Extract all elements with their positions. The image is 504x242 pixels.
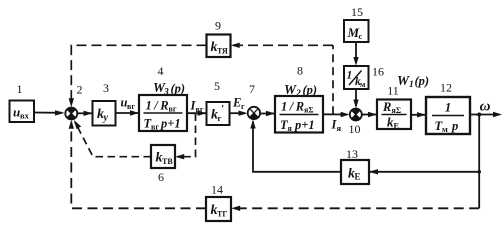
svg-text:1: 1 bbox=[445, 100, 452, 115]
svg-text:2: 2 bbox=[295, 89, 301, 99]
block 9 k_T current feedback bbox=[207, 35, 231, 58]
svg-text:1 / R: 1 / R bbox=[281, 100, 304, 114]
wire: node 10 to block 11 bbox=[362, 114, 377, 116]
wire: dashed from block 9 left, down into node 2 top bbox=[71, 45, 206, 105]
wire: dashed tachogenerator line from trunk to k_TG bbox=[233, 207, 479, 209]
svg-text:16: 16 bbox=[372, 65, 384, 79]
summing junction 7 bbox=[248, 107, 260, 119]
wire: speed emf feedback to k_E bbox=[369, 171, 479, 173]
wire: k_E output left then up into node 7 bbox=[253, 122, 341, 172]
svg-text:(р): (р) bbox=[303, 83, 318, 97]
svg-text:(р): (р) bbox=[171, 82, 186, 96]
svg-text:вх: вх bbox=[20, 111, 30, 121]
svg-text:2: 2 bbox=[77, 83, 83, 97]
block 6 k_TV field current feedback bbox=[151, 145, 175, 168]
svg-text:яΣ: яΣ bbox=[304, 106, 314, 115]
svg-text:7: 7 bbox=[249, 82, 255, 96]
wire: node 7 to W2 bbox=[260, 113, 275, 115]
svg-text:Е: Е bbox=[355, 172, 361, 182]
svg-text:Е: Е bbox=[232, 96, 241, 110]
svg-text:я: я bbox=[337, 123, 342, 133]
wire: W3 to k_g with label I_vg bbox=[187, 112, 207, 114]
block 1 u_vx bbox=[10, 101, 35, 123]
svg-text:у: у bbox=[103, 113, 109, 124]
svg-text:с: с bbox=[359, 31, 363, 41]
svg-text:р+1: р+1 bbox=[160, 117, 181, 131]
svg-text:10: 10 bbox=[349, 122, 361, 136]
wire: dashed line to k_T block 9 bbox=[233, 44, 334, 46]
svg-text:г: г bbox=[241, 102, 245, 111]
svg-text:ТВ: ТВ bbox=[162, 157, 173, 166]
svg-text:м: м bbox=[360, 80, 366, 89]
wire: dashed from k_TV left then diagonal up into node 2 bbox=[75, 122, 151, 157]
block 16 1/k_m bbox=[344, 66, 369, 89]
block 4 W3(p) generator field bbox=[139, 95, 187, 132]
svg-text:вг: вг bbox=[169, 105, 177, 114]
svg-text:вг: вг bbox=[151, 123, 159, 132]
svg-text:м: м bbox=[442, 124, 448, 134]
wire: output with node and arrow, label omega bbox=[470, 114, 499, 116]
wire: 1/k_m down to node 10 bbox=[355, 89, 357, 106]
svg-text:8: 8 bbox=[297, 64, 303, 78]
svg-text:ТГ: ТГ bbox=[217, 210, 227, 219]
svg-text:13: 13 bbox=[346, 147, 358, 161]
svg-text:3: 3 bbox=[103, 81, 109, 95]
block 3 k_u amplifier bbox=[93, 101, 116, 126]
junction dot on trunk bbox=[477, 170, 481, 174]
svg-text:6: 6 bbox=[158, 170, 164, 184]
block 13 k_E bbox=[341, 160, 369, 184]
svg-text:R: R bbox=[382, 100, 391, 114]
summing junction 2 bbox=[65, 107, 77, 119]
svg-text:р: р bbox=[451, 119, 458, 133]
wire: block 11 to block 12 bbox=[411, 114, 426, 116]
svg-text:я: я bbox=[288, 124, 293, 133]
svg-text:р+1: р+1 bbox=[294, 118, 315, 132]
block 8 W2(p) armature circuit bbox=[275, 96, 323, 133]
block 14 k_TG tachogenerator bbox=[206, 197, 231, 221]
svg-text:ТЯ: ТЯ bbox=[217, 47, 228, 56]
svg-text:Е: Е bbox=[394, 121, 400, 131]
wire: dashed field-current feedback takeoff down from I_vg node bbox=[177, 114, 196, 157]
svg-text:ω: ω bbox=[480, 99, 491, 115]
wire: node 2 to amplifier bbox=[77, 112, 92, 114]
svg-text:1: 1 bbox=[17, 82, 23, 96]
svg-text:1: 1 bbox=[347, 70, 353, 82]
svg-text:12: 12 bbox=[440, 81, 452, 95]
svg-text:вг: вг bbox=[196, 105, 204, 114]
block 5 k_g' bbox=[207, 102, 230, 125]
wire: k_g to summing node 7 with label E_g bbox=[230, 112, 246, 114]
svg-text:(р): (р) bbox=[415, 74, 430, 88]
svg-text:3: 3 bbox=[163, 88, 169, 98]
wire: feedback trunk down from output node bbox=[478, 115, 480, 209]
svg-text:вг: вг bbox=[127, 102, 135, 111]
svg-text:1 / R: 1 / R bbox=[146, 99, 169, 113]
svg-text:9: 9 bbox=[215, 19, 221, 33]
block 12 1/(T_m p) bbox=[426, 97, 470, 134]
summing junction 10 bbox=[350, 108, 362, 120]
svg-text:4: 4 bbox=[158, 64, 164, 78]
wire: dashed from k_TG left and up into node 2 bbox=[71, 122, 206, 208]
wire: W2 to summing node 10 with label I_ya bbox=[323, 113, 347, 115]
svg-text:′: ′ bbox=[221, 103, 224, 115]
wire: dashed current feedback takeoff up from I_ya node bbox=[332, 45, 334, 114]
svg-text:15: 15 bbox=[351, 5, 363, 19]
block 15 M_c load torque bbox=[344, 20, 369, 42]
block 11 R_ya/k_E bbox=[377, 100, 411, 131]
wire: amplifier to W3 with label u_vg bbox=[116, 112, 140, 114]
svg-text:1: 1 bbox=[409, 80, 414, 90]
svg-text:14: 14 bbox=[211, 183, 223, 197]
wire: M_c to 1/k_m bbox=[355, 42, 357, 63]
svg-text:5: 5 bbox=[214, 79, 220, 93]
wire: input to summing node 2 bbox=[34, 112, 62, 114]
output node dot bbox=[477, 113, 481, 117]
